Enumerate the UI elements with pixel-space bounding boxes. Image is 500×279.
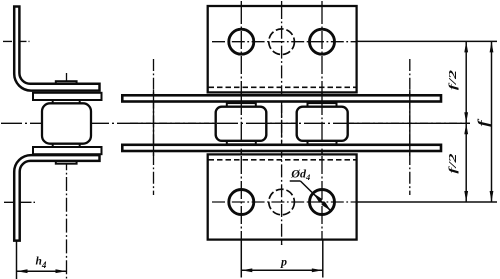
svg-text:f/2: f/2 [447, 69, 459, 90]
svg-text:p: p [280, 255, 287, 269]
svg-text:f/2: f/2 [447, 153, 459, 174]
